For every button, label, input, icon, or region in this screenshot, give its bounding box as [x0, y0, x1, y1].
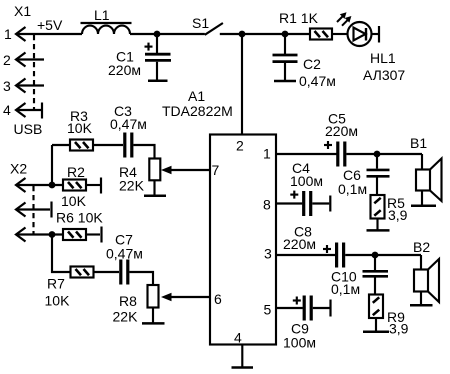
wire IC pin 4 to ground	[241, 345, 243, 368]
resistor R6	[63, 229, 86, 240]
common terminator bar after C4	[329, 196, 331, 212]
capacitor C9	[304, 296, 311, 321]
wire C4 to terminator	[312, 202, 329, 204]
common terminator bar after R2	[100, 178, 102, 194]
svg-text:1: 1	[263, 146, 271, 162]
svg-text:R1 1K: R1 1K	[279, 10, 319, 26]
svg-text:R7: R7	[47, 276, 65, 292]
LED HL1 emission arrows	[337, 12, 351, 25]
wire X2 pinA up to R3	[51, 145, 53, 185]
+5V net label	[37, 17, 63, 33]
wire to R3	[52, 144, 70, 146]
capacitor C5 label	[328, 111, 346, 127]
wire C9 to terminator	[313, 307, 330, 309]
wire IC pin 8 to C4	[276, 202, 302, 204]
node junction C6 top	[374, 151, 381, 158]
wire R5 to ground	[376, 219, 378, 230]
resistor R1	[310, 29, 332, 40]
svg-text:АЛ307: АЛ307	[363, 67, 405, 83]
capacitor C5 plus sign	[324, 141, 332, 149]
capacitor C1 label	[116, 49, 134, 65]
svg-text:L1: L1	[94, 7, 110, 23]
wire IC pin 5 to C9	[276, 307, 303, 309]
svg-text:220м: 220м	[325, 123, 358, 139]
capacitor C10	[363, 255, 389, 295]
svg-text:S1: S1	[192, 15, 209, 31]
ground under C1	[148, 79, 168, 82]
svg-text:R2: R2	[67, 164, 85, 180]
speaker B2 label	[413, 239, 430, 255]
svg-text:5: 5	[264, 302, 272, 318]
svg-text:100м: 100м	[283, 335, 316, 351]
capacitor C8 value 220u	[283, 236, 316, 252]
common terminator bar after C9	[329, 300, 331, 317]
wire X2 pinC down to R7	[52, 235, 71, 273]
LED HL1 label	[370, 50, 396, 66]
wire R9 to ground	[375, 318, 377, 331]
X1 pin 2 arrow and stub	[16, 53, 44, 67]
wire L1 to S1	[130, 33, 205, 35]
wire IC pin 1 to C5	[276, 153, 337, 155]
resistor R3 value 10K	[67, 120, 93, 136]
IC pin 5 number	[264, 302, 272, 318]
X2 dashed link line	[32, 186, 34, 235]
svg-text:6: 6	[214, 291, 222, 307]
capacitor C2	[273, 34, 298, 80]
capacitor C7	[121, 260, 128, 285]
potentiometer R8	[148, 285, 159, 308]
resistor R5 value 3,9	[388, 207, 408, 223]
resistor R5	[371, 195, 385, 219]
svg-text:220м: 220м	[108, 62, 141, 78]
resistor R2 label	[67, 164, 85, 180]
connector X1 label	[14, 3, 31, 19]
capacitor C3 value 0,47u	[110, 116, 147, 132]
wire R4 to ground	[153, 180, 155, 195]
wire HL1 to terminator	[372, 33, 379, 35]
node junction at C2	[282, 31, 289, 38]
svg-text:100м: 100м	[290, 173, 323, 189]
capacitor C9 value 100u	[283, 335, 316, 351]
USB label	[14, 121, 43, 137]
svg-text:B2: B2	[413, 239, 430, 255]
resistor R3 label	[70, 108, 88, 124]
wire IC pin 3 to C8	[276, 254, 335, 256]
resistor R2 value 10K	[61, 193, 87, 209]
inductor L1 label	[94, 7, 110, 23]
wire C5 to B1	[346, 153, 422, 155]
capacitor C1	[145, 34, 171, 80]
X1 pin 4 common terminator bar	[41, 103, 43, 119]
svg-text:R6 10K: R6 10K	[56, 210, 103, 226]
wire C8 to B2	[345, 254, 421, 256]
switch S1 lever	[205, 23, 223, 35]
svg-text:3,9: 3,9	[389, 321, 409, 337]
speaker B1	[416, 154, 442, 205]
X2 pin A arrow and wire to R2	[16, 178, 63, 192]
capacitor C10 value 0,1u	[331, 281, 360, 297]
resistor R7 value 10K	[45, 293, 71, 309]
ground under R5	[367, 229, 390, 232]
capacitor C4	[304, 191, 311, 216]
capacitor C6	[367, 154, 390, 195]
X1 pin 1 arrow	[16, 27, 26, 41]
IC A1 type TDA2822M	[162, 103, 233, 119]
ground under pin 4	[232, 366, 254, 369]
IC pin 1 number	[263, 146, 271, 162]
svg-text:7: 7	[212, 162, 220, 178]
wire S1 to pin2 node	[220, 33, 242, 35]
common terminator bar after HL1	[378, 26, 380, 43]
svg-text:220м: 220м	[283, 236, 316, 252]
svg-text:10K: 10K	[45, 293, 71, 309]
op-amp IC A1 label	[188, 88, 205, 104]
X1 pin 3 number	[3, 78, 11, 94]
node junction at C1	[154, 31, 161, 38]
wire C7 to R8	[129, 272, 153, 285]
resistor R1 label and value	[279, 10, 319, 26]
svg-text:3: 3	[3, 78, 11, 94]
capacitor C5	[338, 142, 345, 167]
svg-text:A1: A1	[188, 88, 205, 104]
X1 pin 1 number	[4, 26, 12, 42]
resistor R3	[70, 140, 93, 151]
capacitor C9 label	[291, 321, 309, 337]
capacitor C4 label	[292, 160, 310, 176]
wire C3 to R4	[133, 145, 154, 159]
capacitor C9 plus sign	[293, 297, 301, 305]
wire X1 pin1 to L1	[16, 33, 82, 35]
wire R6 to terminator	[86, 233, 100, 235]
svg-text:TDA2822M: TDA2822M	[162, 103, 233, 119]
svg-text:0,47м: 0,47м	[106, 246, 143, 262]
potentiometer R4 label	[119, 164, 137, 180]
capacitor C2 label	[303, 56, 321, 72]
svg-text:R8: R8	[119, 293, 137, 309]
capacitor C4 plus sign	[290, 191, 298, 199]
IC A1 body	[210, 135, 276, 345]
capacitor C8	[337, 243, 344, 268]
svg-text:B1: B1	[410, 135, 427, 151]
svg-text:0,1м: 0,1м	[338, 181, 367, 197]
svg-text:0,47м: 0,47м	[299, 73, 336, 89]
potentiometer R8 label	[119, 293, 137, 309]
potentiometer R4	[149, 159, 160, 181]
svg-text:C2: C2	[303, 56, 321, 72]
R8 wiper arrow and wire to IC pin 6	[161, 293, 210, 302]
common terminator bar X2 pin B	[50, 202, 52, 218]
ground under R8	[142, 322, 165, 325]
X1 dashed link line	[33, 35, 35, 110]
svg-text:X1: X1	[14, 3, 31, 19]
svg-text:22K: 22K	[119, 178, 145, 194]
capacitor C8 plus sign	[323, 245, 331, 253]
capacitor C7 value 0,47u	[106, 246, 143, 262]
wire node to IC pin 2	[241, 34, 243, 135]
svg-text:USB: USB	[14, 121, 43, 137]
R4 wiper arrow and wire to IC pin 7	[161, 166, 210, 175]
capacitor C3	[125, 133, 132, 158]
capacitor C3 label	[114, 103, 132, 119]
capacitor C2 value 0,47u	[299, 73, 336, 89]
common bar under B2	[410, 304, 433, 307]
svg-text:2: 2	[236, 138, 244, 154]
node junction at pin2 wire	[239, 31, 246, 38]
resistor R9 label	[387, 309, 405, 325]
svg-text:0,47м: 0,47м	[110, 116, 147, 132]
ground under R9	[363, 331, 389, 334]
svg-text:3,9: 3,9	[388, 207, 408, 223]
switch S1 label	[192, 15, 209, 31]
svg-text:3: 3	[264, 246, 272, 262]
capacitor C1 plus sign	[145, 43, 153, 51]
IC pin 6 number	[214, 291, 222, 307]
svg-text:8: 8	[263, 197, 271, 213]
wire R2 to terminator	[86, 184, 100, 186]
common bar under B1	[411, 205, 436, 208]
svg-text:+5V: +5V	[37, 17, 63, 33]
wire R8 to ground	[152, 308, 154, 323]
svg-text:2: 2	[3, 52, 11, 68]
potentiometer R8 value 22K	[113, 309, 139, 325]
speaker B2	[414, 255, 439, 305]
svg-text:0,1м: 0,1м	[331, 281, 360, 297]
capacitor C8 label	[294, 224, 312, 240]
IC pin 3 number	[264, 246, 272, 262]
resistor R2	[63, 180, 86, 191]
wire C2 node to R1	[285, 33, 310, 35]
svg-text:22K: 22K	[113, 309, 139, 325]
resistor R9 value 3,9	[389, 321, 409, 337]
svg-text:HL1: HL1	[370, 50, 396, 66]
resistor R7 label	[47, 276, 65, 292]
X1 pin 2 number	[3, 52, 11, 68]
connector X2 label	[10, 161, 27, 177]
capacitor C10 label	[331, 269, 357, 285]
node junction X2 pin A	[49, 182, 56, 189]
potentiometer R4 value 22K	[119, 178, 145, 194]
LED HL1	[348, 22, 372, 46]
speaker B1 label	[410, 135, 427, 151]
capacitor C7 label	[115, 232, 133, 248]
wire R7 to C7	[94, 271, 120, 273]
wire R3 to C3	[93, 144, 123, 146]
svg-text:4: 4	[234, 330, 242, 346]
IC pin 7 number	[212, 162, 220, 178]
capacitor C5 value 220u	[325, 123, 358, 139]
capacitor C6 label	[343, 167, 361, 183]
resistor R6 label and value	[56, 210, 103, 226]
node junction X2 pin C	[49, 231, 56, 238]
node junction C10 top	[372, 252, 379, 259]
X1 pin 4 arrow and stub	[16, 103, 41, 117]
IC pin 2 number	[236, 138, 244, 154]
X2 pin B arrow and stub	[16, 203, 50, 217]
LED HL1 type АЛ307	[363, 67, 405, 83]
wire pin2 node to C2 node	[242, 33, 285, 35]
svg-text:1: 1	[4, 26, 12, 42]
svg-text:X2: X2	[10, 161, 27, 177]
common terminator bar after R6	[100, 227, 102, 243]
inductor L1	[81, 23, 132, 34]
svg-text:4: 4	[3, 102, 11, 118]
resistor R7	[71, 267, 94, 278]
resistor R9	[369, 295, 383, 319]
X2 pin C arrow and wire to R6	[16, 228, 63, 242]
capacitor C1 value 220u	[108, 62, 141, 78]
IC pin 4 number	[234, 330, 242, 346]
X1 pin 3 arrow and stub	[16, 79, 44, 93]
svg-text:10K: 10K	[67, 120, 93, 136]
IC pin 8 number	[263, 197, 271, 213]
ground under R4	[144, 195, 166, 198]
wire R1 to HL1	[332, 33, 348, 35]
X1 pin 4 number	[3, 102, 11, 118]
resistor R5 label	[387, 195, 405, 211]
capacitor C4 value 100u	[290, 173, 323, 189]
capacitor C6 value 0,1u	[338, 181, 367, 197]
ground under C2	[274, 80, 296, 83]
svg-text:10K: 10K	[61, 193, 87, 209]
